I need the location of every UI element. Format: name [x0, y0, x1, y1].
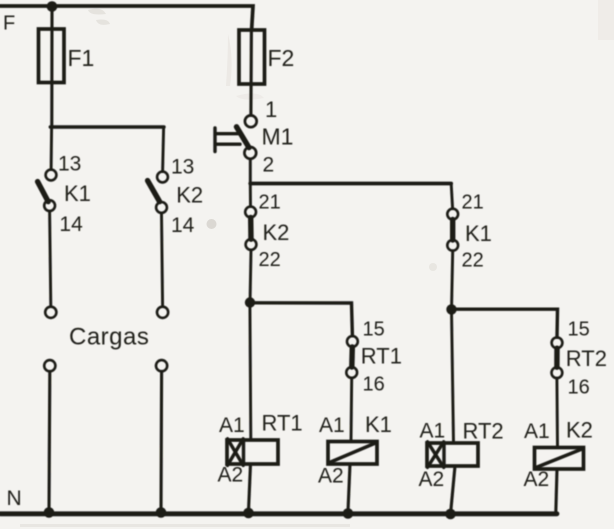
pushbutton M1 (NO start button) [215, 115, 257, 158]
wire from load terminal to N bus [159, 371, 163, 511]
wire coil RT1 to N bus [249, 464, 251, 511]
svg-text:K1: K1 [365, 412, 392, 437]
wire junction B down to coil RT2 [452, 310, 454, 443]
wire node 2 horizontal to right branch [250, 182, 451, 186]
svg-text:F: F [3, 13, 15, 35]
svg-text:21: 21 [259, 192, 281, 214]
svg-text:RT2: RT2 [463, 419, 504, 444]
svg-text:22: 22 [259, 249, 281, 271]
svg-text:K2: K2 [176, 183, 203, 208]
svg-text:1: 1 [265, 97, 277, 122]
svg-text:F1: F1 [68, 45, 95, 71]
load terminal circle bottom-right [156, 360, 167, 371]
junction A dot [245, 297, 255, 307]
wire from M1 pin2 to node 2 tee [249, 159, 252, 184]
svg-text:M1: M1 [262, 124, 294, 150]
svg-text:A2: A2 [524, 468, 550, 491]
coil K1 (relay coil with diagonal) [328, 442, 377, 465]
load terminal circle top-left [45, 307, 56, 318]
junction on N bus coil K1 [343, 508, 354, 519]
svg-text:A1: A1 [524, 420, 550, 443]
svg-text:K1: K1 [465, 221, 492, 246]
svg-text:16: 16 [568, 377, 590, 399]
contact K1 (NC 21-22) [447, 209, 458, 251]
load terminal circle bottom-left [44, 360, 55, 371]
wire from K2 pin22 to junction A [249, 250, 253, 299]
svg-text:13: 13 [58, 153, 81, 176]
junction on N bus branch2 [156, 507, 167, 518]
wire down to contact K2 21 [249, 184, 252, 207]
svg-text:RT2: RT2 [566, 346, 607, 371]
svg-text:22: 22 [462, 250, 484, 272]
wire from K1 pin14 to load terminal [50, 211, 51, 306]
junction B dot [446, 304, 456, 314]
wire down to contact K1 21 [451, 184, 452, 209]
contact K2 (NC 21-22) [245, 207, 256, 250]
svg-text:2: 2 [263, 154, 275, 177]
svg-text:16: 16 [363, 374, 385, 396]
wire through fuse F2 down to pushbutton M1 [249, 30, 253, 115]
contact K1 (NO 13-14) [38, 170, 57, 211]
wire coil K2 to N bus end [556, 469, 557, 513]
wire from K2 pin14 to load terminal [162, 213, 163, 307]
coil K2 (relay coil with diagonal) [535, 448, 584, 470]
wire from F bus through fuse F1 down to branch split [50, 7, 53, 127]
junction on N bus branch1 [44, 507, 55, 518]
wire from K1 pin22 to junction B [452, 251, 453, 306]
svg-text:14: 14 [171, 214, 195, 237]
svg-text:A1: A1 [219, 414, 245, 437]
wire from RT1 pin16 to coil K1 [350, 378, 354, 441]
contact RT1 (NC 15-16) [346, 336, 357, 378]
svg-text:Cargas: Cargas [69, 324, 149, 351]
contact K2 (NO 13-14) [148, 172, 168, 213]
wire coil RT2 to N bus [451, 466, 455, 512]
wire coil K1 to N bus [348, 464, 350, 511]
svg-text:13: 13 [171, 156, 194, 179]
wire down to contact K1 [50, 128, 53, 170]
fuse F2 [239, 30, 294, 84]
svg-text:21: 21 [462, 192, 484, 214]
node N neutral bus wire [0, 511, 557, 516]
wire junction A horizontal to RT1 contact branch [251, 303, 353, 336]
junction on F bus [47, 1, 58, 12]
svg-text:F2: F2 [268, 45, 295, 71]
contact RT2 (NC 15-16) [552, 337, 563, 378]
load terminal circle top-right [157, 307, 168, 318]
svg-text:15: 15 [363, 319, 385, 341]
wire junction A down to coil RT1 [248, 303, 252, 440]
svg-text:K2: K2 [263, 220, 290, 245]
junction on N bus coil RT2 [445, 509, 456, 520]
wire junction B horizontal to RT2 contact branch [452, 309, 558, 337]
coil RT1 (timer coil with X box) [227, 439, 278, 466]
svg-text:15: 15 [568, 319, 590, 341]
junction on N bus coil RT1 [243, 508, 254, 519]
svg-text:14: 14 [59, 213, 83, 236]
wire down to contact K2 [163, 128, 164, 172]
wire from load terminal to N bus [47, 371, 51, 511]
svg-text:A1: A1 [420, 420, 446, 443]
svg-text:A2: A2 [419, 468, 445, 491]
node F phase bus wire [0, 6, 253, 30]
svg-text:K1: K1 [64, 181, 91, 206]
svg-text:RT1: RT1 [361, 344, 402, 369]
svg-text:A1: A1 [319, 414, 345, 437]
svg-text:A2: A2 [318, 465, 344, 488]
svg-text:RT1: RT1 [262, 411, 303, 436]
svg-text:N: N [7, 487, 22, 510]
svg-text:A2: A2 [218, 464, 244, 487]
coil RT2 (timer coil with X box) [427, 442, 478, 468]
fuse F1 [39, 29, 95, 83]
svg-text:K2: K2 [566, 418, 593, 443]
wire branch split horizontal [50, 125, 164, 128]
wire from RT2 pin16 to coil K2 [555, 378, 558, 447]
